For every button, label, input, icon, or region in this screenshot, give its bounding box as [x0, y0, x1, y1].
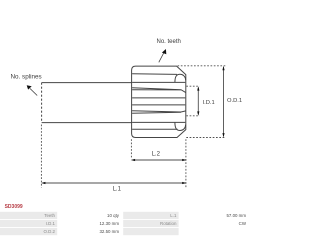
- svg-text:Teeth: Teeth: [44, 213, 55, 218]
- gear body outline: [132, 66, 186, 137]
- svg-text:57.00 mm: 57.00 mm: [226, 213, 246, 218]
- gear tooth line 5: [132, 104, 185, 106]
- svg-text:L.1: L.1: [113, 187, 122, 193]
- svg-text:10 qty: 10 qty: [107, 213, 120, 218]
- shaft top edge: [42, 82, 132, 84]
- svg-text:32.50 mm: 32.50 mm: [99, 229, 119, 234]
- shaft left edge (dashed spline end): [41, 83, 43, 123]
- shaft (splined barrel): [42, 83, 132, 123]
- gear tooth line 2: [132, 81, 185, 83]
- dimension L.2: [131, 139, 186, 187]
- dimension I.D.1: [186, 86, 199, 116]
- svg-text:Rotation: Rotation: [160, 221, 177, 226]
- gear tooth line 1: [132, 73, 177, 76]
- gear tooth line 7: [132, 128, 177, 130]
- svg-text:No. teeth: No. teeth: [157, 39, 181, 45]
- svg-text:O.D.1: O.D.1: [227, 98, 242, 104]
- svg-text:L.1: L.1: [170, 213, 177, 218]
- dimension O.D.1: [178, 66, 226, 138]
- svg-text:L.2: L.2: [152, 152, 161, 158]
- dimension L.1: [41, 125, 184, 188]
- spec table row 3: O.D.2 / 32.50 mm / empty: [0, 228, 250, 235]
- svg-text:I.D.1: I.D.1: [46, 221, 56, 226]
- svg-text:I.D.1: I.D.1: [203, 100, 215, 106]
- tooth end arc top: [175, 74, 186, 82]
- spec table row 1: Teeth / 10 qty / L.1 / 57.00 mm: [0, 212, 250, 219]
- svg-text:CW: CW: [239, 221, 247, 226]
- gear tooth line 6: [132, 121, 185, 123]
- gear tooth line 4: [132, 97, 185, 99]
- svg-text:12.30 mm: 12.30 mm: [99, 221, 119, 226]
- tooth chamfer wedge upper: [132, 88, 186, 93]
- shaft bottom edge: [42, 122, 132, 124]
- spec table row 2: I.D.1 / 12.30 mm / Rotation / CW: [0, 220, 250, 227]
- leader: No. teeth: [157, 39, 181, 63]
- svg-text:O.D.2: O.D.2: [44, 229, 56, 234]
- svg-text:No. splines: No. splines: [11, 74, 42, 81]
- tooth chamfer wedge lower: [132, 111, 186, 113]
- leader: No. splines: [11, 74, 42, 96]
- tooth end arc bottom: [175, 122, 186, 130]
- svg-text:SD3099: SD3099: [5, 204, 23, 210]
